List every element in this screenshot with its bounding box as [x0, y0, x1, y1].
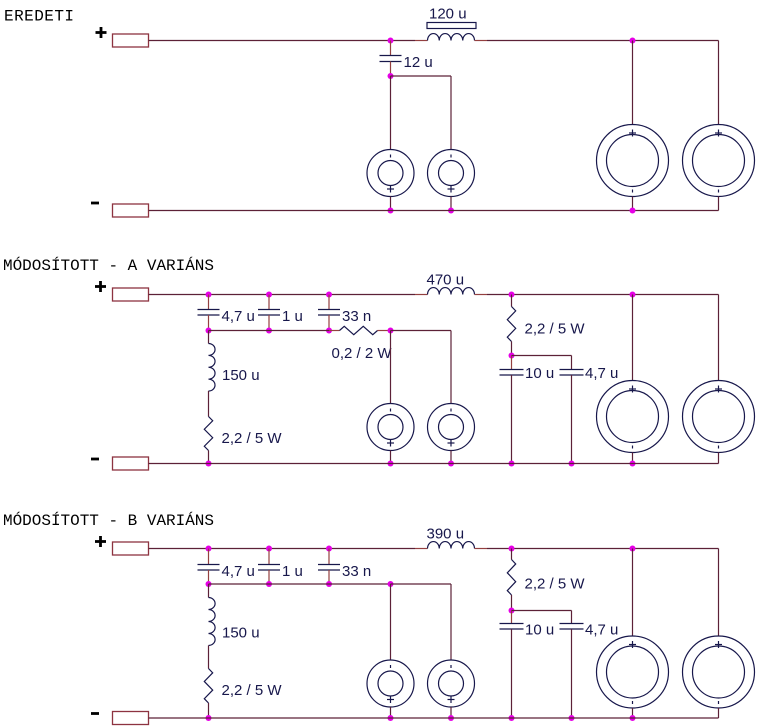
svg-text:EREDETI: EREDETI: [4, 8, 74, 26]
svg-text:120 u: 120 u: [429, 6, 467, 23]
wire right edge bottom: [718, 197, 720, 211]
capacitor 33 n lead top A: [328, 295, 330, 310]
wire right edge bottom B: [718, 708, 720, 718]
plus label (input + B): [95, 540, 106, 543]
wire 150u top lead B: [208, 584, 210, 598]
svg-text:12 u: 12 u: [404, 54, 433, 71]
capacitor 4,7u shunt A: [560, 369, 584, 371]
svg-text:MÓDOSÍTOTT - B VARIÁNS: MÓDOSÍTOTT - B VARIÁNS: [3, 511, 214, 530]
wire to tweeter S2 top: [450, 76, 452, 150]
minus label (input -): [91, 202, 99, 205]
junction S1 / bottom bus: [388, 208, 394, 214]
wire S2 bottom A: [450, 451, 452, 464]
junction 10u bottom A: [509, 461, 515, 467]
capacitor 4,7u shunt B: [560, 623, 584, 625]
terminal - (section 1): [113, 204, 149, 217]
wire 150u top lead A: [208, 331, 210, 344]
svg-text:4,7 u: 4,7 u: [222, 308, 255, 325]
junction top bus / C1 branch: [388, 38, 394, 44]
junction top bus R branch A: [509, 292, 515, 298]
junction top bus W1 B: [630, 546, 636, 552]
capacitor 33 n lead top B: [328, 549, 330, 565]
speaker W1 woofer B: [597, 636, 669, 708]
junction S1 bottom B: [388, 715, 394, 721]
wire right edge bottom A: [718, 453, 720, 464]
svg-text:4,7 u: 4,7 u: [585, 365, 618, 382]
speaker S2 tweeter B: [428, 660, 475, 707]
pin left of series inductor B: [415, 548, 428, 550]
junction 4,7u bottom A: [569, 461, 575, 467]
wire right edge top B: [718, 549, 720, 637]
resistor 0,2/2W A: [340, 326, 378, 334]
capacitor 10u lead top A: [511, 356, 513, 370]
inductor 390 u coil: [428, 542, 475, 549]
junction S2 bottom A: [448, 461, 454, 467]
capacitor 4,7 u lead top B: [208, 549, 210, 565]
pin left of series inductor A: [415, 294, 428, 296]
wire S2 bottom: [450, 197, 452, 211]
speaker W2 woofer B: [683, 636, 755, 708]
wire bottom bus A: [149, 463, 719, 465]
svg-text:33 n: 33 n: [342, 563, 371, 580]
junction second bus x269 B: [266, 581, 272, 587]
junction left branch bottom B: [206, 715, 212, 721]
junction second bus x269 A: [266, 328, 272, 334]
wire right edge top: [718, 41, 720, 125]
plus label (input + A): [95, 285, 106, 288]
capacitor 4,7u lead bottom A: [571, 375, 573, 464]
junction top bus / W1 branch: [630, 38, 636, 44]
wire R bottom lead A: [208, 451, 210, 464]
capacitor 10u B: [500, 623, 524, 625]
svg-text:2,2 / 5 W: 2,2 / 5 W: [525, 576, 586, 593]
wire bottom bus B: [149, 717, 719, 719]
junction top bus W1 A: [630, 292, 636, 298]
wire to tweeter S1 top A: [390, 331, 392, 404]
wire tweeter bus B: [391, 583, 452, 585]
svg-text:1 u: 1 u: [282, 563, 303, 580]
svg-text:0,2 / 2 W: 0,2 / 2 W: [332, 345, 393, 362]
speaker W1 woofer A: [597, 381, 669, 453]
junction S2 / bottom bus: [448, 208, 454, 214]
inductor 470 u coil: [428, 288, 475, 295]
wire 150u-R lead A: [208, 391, 210, 417]
wire W1 top lead B: [632, 549, 634, 637]
junction node below C1: [388, 73, 394, 79]
svg-text:2,2 / 5 W: 2,2 / 5 W: [222, 682, 283, 699]
wire top bus left: [149, 40, 416, 42]
capacitor 4,7 u lead bottom B: [208, 570, 210, 584]
terminal - (variant A): [113, 457, 149, 470]
capacitor 10u lead bottom A: [511, 375, 513, 464]
wire W1 top lead A: [632, 295, 634, 381]
speaker W2 woofer A: [683, 381, 755, 453]
capacitor 4,7u lead top B: [571, 611, 573, 624]
wire second bus A: [209, 330, 330, 332]
svg-text:390 u: 390 u: [427, 526, 465, 543]
junction second bus x329 B: [326, 581, 332, 587]
wire right edge top A: [718, 295, 720, 381]
junction 4,7u bottom B: [569, 715, 575, 721]
svg-text:150 u: 150 u: [222, 367, 260, 384]
junction R2 / caps A: [509, 353, 515, 359]
junction left branch bottom A: [206, 461, 212, 467]
junction second bus x329 A: [326, 328, 332, 334]
capacitor 1 u lead top A: [268, 295, 270, 310]
terminal + (variant B): [113, 542, 149, 555]
junction W1 bottom A: [630, 461, 636, 467]
svg-text:10 u: 10 u: [525, 622, 554, 639]
inductor L1 coil 120u: [428, 34, 475, 41]
junction 10u bottom B: [509, 715, 515, 721]
svg-text:470 u: 470 u: [427, 272, 465, 289]
svg-text:10 u: 10 u: [525, 365, 554, 382]
svg-text:2,2 / 5 W: 2,2 / 5 W: [525, 321, 586, 338]
wire bottom bus: [149, 210, 719, 212]
wire W1 bottom lead: [632, 197, 634, 211]
speaker S1 tweeter B: [367, 660, 414, 707]
capacitor 33 n lead bottom B: [328, 570, 330, 584]
junction second bus x208 A: [206, 328, 212, 334]
plus label (input +): [96, 31, 107, 34]
wire R2 top lead B: [511, 549, 513, 560]
inductor L1 core rectangle: [427, 23, 476, 29]
wire S1 bottom A: [390, 451, 392, 464]
capacitor C1 lead top: [390, 41, 392, 56]
svg-text:4,7 u: 4,7 u: [222, 563, 255, 580]
pin right of series inductor B: [475, 548, 488, 550]
wire S1 bottom B: [390, 707, 392, 718]
wire second bus B: [209, 583, 391, 585]
wire to 4,7u branch B: [512, 610, 572, 612]
wire W1 bottom lead B: [632, 708, 634, 718]
wire to 4,7u branch A: [512, 355, 572, 357]
wire top bus right: [487, 40, 719, 42]
wire W1 top lead: [632, 41, 634, 125]
capacitor 4,7 u lead top A: [208, 295, 210, 310]
capacitor 33 n (A hp filter): [318, 309, 340, 311]
junction top bus x269 B: [266, 546, 272, 552]
speaker S1 tweeter: [367, 150, 414, 197]
wire S1 bottom: [390, 197, 392, 211]
minus label (input - A): [91, 458, 99, 461]
wire S2 bottom B: [450, 707, 452, 718]
capacitor C1 lead bottom: [390, 62, 392, 77]
capacitor 1 u (B hp filter): [258, 564, 280, 566]
junction S2 bottom B: [448, 715, 454, 721]
pin left of L1: [415, 40, 428, 42]
capacitor 4,7u lead bottom B: [571, 629, 573, 718]
capacitor 33 n lead bottom A: [328, 315, 330, 331]
wire top bus right A: [487, 294, 719, 296]
junction W1 / bottom bus: [630, 208, 636, 214]
wire to tweeter S1 top B: [390, 584, 392, 660]
speaker S2 tweeter: [428, 150, 475, 197]
junction R2 / caps B: [509, 608, 515, 614]
svg-text:MÓDOSÍTOTT - A VARIÁNS: MÓDOSÍTOTT - A VARIÁNS: [3, 256, 214, 275]
speaker S1 tweeter A: [367, 404, 414, 451]
junction second bus x208 B: [206, 581, 212, 587]
capacitor C1 12u: [380, 55, 402, 57]
svg-text:2,2 / 5 W: 2,2 / 5 W: [222, 430, 283, 447]
capacitor 4,7 u (A hp filter): [198, 309, 220, 311]
pin right of R series A: [378, 330, 391, 332]
terminal + (section 1): [113, 34, 149, 47]
svg-text:150 u: 150 u: [222, 625, 260, 642]
junction S1 bottom A: [388, 461, 394, 467]
junction top bus x329 B: [326, 546, 332, 552]
terminal - (variant B): [113, 712, 149, 725]
speaker W2 woofer: [683, 125, 755, 197]
wire tweeter bus: [391, 75, 452, 77]
speaker W1 woofer: [597, 125, 669, 197]
pin left of R series A: [329, 330, 340, 332]
resistor 2,2/5W left B: [204, 669, 212, 704]
resistor 2,2/5W left A: [204, 417, 212, 451]
junction tweeter node A: [388, 328, 394, 334]
capacitor 1 u (A hp filter): [258, 309, 280, 311]
capacitor 4,7u lead top A: [571, 356, 573, 370]
junction tweeter node B: [388, 581, 394, 587]
capacitor 4,7 u lead bottom A: [208, 315, 210, 331]
wire top bus left B: [149, 548, 416, 550]
capacitor 10u lead bottom B: [511, 629, 513, 718]
wire R2 bottom lead A: [511, 342, 513, 356]
inductor 150u B: [209, 598, 216, 646]
svg-text:4,7 u: 4,7 u: [585, 622, 618, 639]
junction top bus R branch B: [509, 546, 515, 552]
junction top bus x329 A: [326, 292, 332, 298]
capacitor 1 u lead bottom A: [268, 315, 270, 331]
capacitor 10u lead top B: [511, 611, 513, 624]
resistor 2,2/5W right A: [507, 307, 515, 342]
wire R bottom lead B: [208, 703, 210, 718]
svg-text:33 n: 33 n: [342, 308, 371, 325]
pin right of series inductor A: [475, 294, 488, 296]
wire R2 top lead A: [511, 295, 513, 307]
junction W1 bottom B: [630, 715, 636, 721]
capacitor 1 u lead top B: [268, 549, 270, 565]
resistor 2,2/5W right B: [507, 560, 515, 596]
pin right of L1: [475, 40, 488, 42]
wire 150u-R lead B: [208, 646, 210, 669]
minus label (input - B): [91, 712, 99, 715]
wire top bus left A: [149, 294, 416, 296]
junction top bus x208 B: [206, 546, 212, 552]
junction top bus x269 A: [266, 292, 272, 298]
wire top bus right B: [487, 548, 719, 550]
speaker S2 tweeter A: [428, 404, 475, 451]
junction top bus x208 A: [206, 292, 212, 298]
wire to tweeter S2 top A: [450, 331, 452, 404]
svg-text:1 u: 1 u: [282, 308, 303, 325]
terminal + (variant A): [113, 288, 149, 301]
capacitor 33 n (B hp filter): [318, 564, 340, 566]
inductor 150u A: [209, 344, 216, 392]
wire tweeter bus A: [391, 330, 452, 332]
capacitor 1 u lead bottom B: [268, 570, 270, 584]
wire R2 bottom lead B: [511, 595, 513, 611]
capacitor 10u A: [500, 369, 524, 371]
wire W1 bottom lead A: [632, 453, 634, 464]
capacitor 4,7 u (B hp filter): [198, 564, 220, 566]
wire to tweeter S1 top: [390, 76, 392, 150]
wire to tweeter S2 top B: [450, 584, 452, 660]
